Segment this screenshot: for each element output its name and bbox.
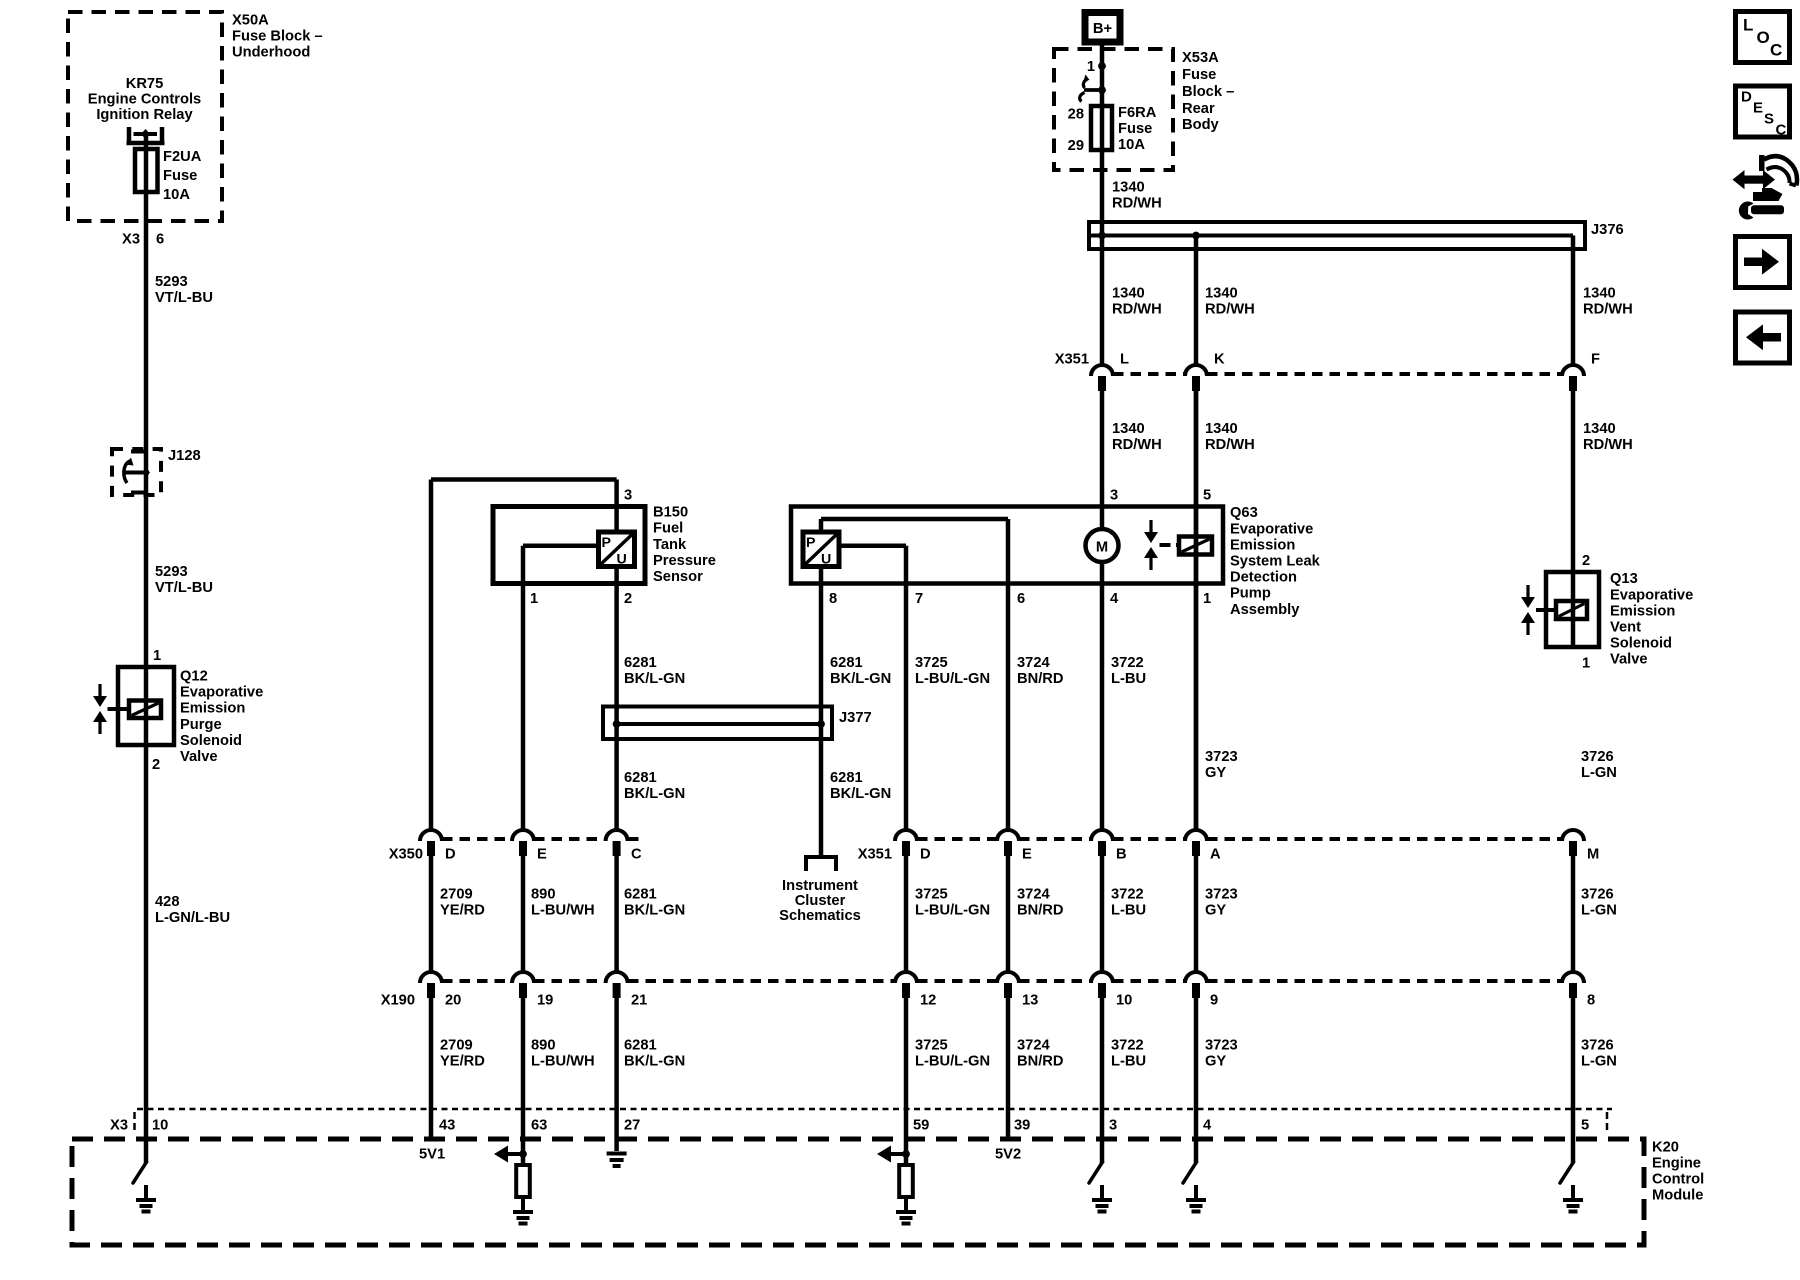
svg-text:6281: 6281: [830, 770, 863, 786]
ground pin 4: [1186, 1198, 1206, 1202]
svg-text:3: 3: [1109, 1118, 1117, 1134]
connector X350 pin D: [420, 830, 442, 841]
svg-text:O: O: [1757, 28, 1770, 47]
svg-text:43: 43: [439, 1118, 455, 1134]
connector X190 pin 19: [512, 972, 534, 983]
svg-text:6281: 6281: [830, 655, 863, 671]
5V reference arrow at pin 59: [877, 1146, 891, 1163]
nav icon DESC box: [1736, 86, 1790, 137]
wire 1340 RD/WH right drop from J376: [1571, 236, 1576, 366]
connector X351 pin B: [1091, 830, 1113, 841]
svg-text:Valve: Valve: [1610, 652, 1648, 668]
svg-text:1340: 1340: [1205, 286, 1238, 302]
svg-text:Underhood: Underhood: [232, 45, 310, 61]
relay KR75 contact: [127, 127, 132, 145]
svg-text:J376: J376: [1591, 222, 1624, 238]
svg-text:890: 890: [531, 1038, 556, 1054]
switch to ground pin 5: [1560, 1162, 1574, 1183]
svg-text:GY: GY: [1205, 765, 1226, 781]
svg-text:Module: Module: [1652, 1188, 1703, 1204]
svg-text:3725: 3725: [915, 655, 948, 671]
svg-text:2: 2: [1582, 553, 1590, 569]
resistor at pin 63: [521, 1154, 526, 1165]
svg-text:Emission: Emission: [1610, 603, 1675, 619]
svg-text:21: 21: [631, 993, 647, 1009]
svg-text:F2UA: F2UA: [163, 149, 202, 165]
svg-text:3725: 3725: [915, 887, 948, 903]
connector X190 pin 12: [895, 972, 917, 983]
svg-text:59: 59: [913, 1118, 929, 1134]
svg-text:RD/WH: RD/WH: [1205, 302, 1255, 318]
svg-text:4: 4: [1203, 1118, 1212, 1134]
svg-text:L-GN: L-GN: [1581, 903, 1617, 919]
svg-text:1: 1: [1087, 59, 1095, 75]
svg-text:2: 2: [624, 591, 632, 607]
svg-text:C: C: [1776, 122, 1787, 139]
svg-text:3: 3: [624, 488, 632, 504]
svg-text:5V1: 5V1: [419, 1147, 445, 1163]
connector X350 pin E: [512, 830, 534, 841]
wire Q63 pin 6 internal: [821, 517, 1008, 522]
svg-text:6281: 6281: [624, 1038, 657, 1054]
svg-text:3722: 3722: [1111, 1038, 1144, 1054]
svg-text:D: D: [920, 847, 931, 863]
coil Q12: [129, 701, 161, 719]
svg-text:3724: 3724: [1017, 887, 1051, 903]
svg-text:3722: 3722: [1111, 887, 1144, 903]
svg-text:BK/L-GN: BK/L-GN: [830, 671, 891, 687]
svg-text:BK/L-GN: BK/L-GN: [830, 786, 891, 802]
nav icon LOC box: [1736, 12, 1790, 63]
svg-text:L-BU: L-BU: [1111, 1054, 1146, 1070]
svg-text:BN/RD: BN/RD: [1017, 903, 1064, 919]
svg-text:U: U: [821, 552, 831, 568]
svg-text:F6RA: F6RA: [1118, 105, 1157, 121]
svg-text:5V2: 5V2: [995, 1147, 1021, 1163]
svg-text:Vent: Vent: [1610, 620, 1641, 636]
svg-text:Cluster: Cluster: [795, 893, 846, 909]
motor M symbol Q63: [1086, 529, 1119, 562]
connector X350 pin C: [606, 830, 628, 841]
splice bus J376: [1089, 222, 1585, 249]
connector X351 pin E: [997, 830, 1019, 841]
solenoid valve Q12 box: [118, 667, 174, 745]
svg-text:3726: 3726: [1581, 1038, 1614, 1054]
svg-text:19: 19: [537, 993, 553, 1009]
junction node K20 pin 59: [902, 1150, 910, 1158]
svg-text:10: 10: [1116, 993, 1132, 1009]
connector X351 pin M: [1562, 830, 1584, 841]
junction node on J376 at 1102: [1098, 232, 1106, 240]
svg-text:YE/RD: YE/RD: [440, 1054, 485, 1070]
svg-text:Pump: Pump: [1230, 586, 1271, 602]
svg-text:L-BU: L-BU: [1111, 903, 1146, 919]
svg-text:C: C: [1770, 41, 1782, 60]
svg-text:29: 29: [1068, 138, 1084, 154]
svg-text:28: 28: [1068, 107, 1084, 123]
svg-text:X3: X3: [110, 1118, 128, 1134]
wire Q63 pin 4 below motor: [1100, 562, 1105, 830]
svg-text:YE/RD: YE/RD: [440, 903, 485, 919]
wire Q63 pin 8 down to instrument cluster: [819, 567, 824, 858]
svg-text:L-GN/L-BU: L-GN/L-BU: [155, 910, 230, 926]
svg-text:BN/RD: BN/RD: [1017, 671, 1064, 687]
switch to ground pin 3: [1089, 1162, 1103, 1183]
wire B150 pin 2 down through J377: [614, 567, 619, 831]
connector row X350 dashed line: [442, 837, 512, 841]
solenoid valve Q13 box: [1546, 572, 1599, 647]
wire Q63 pin 1 through coil: [1194, 391, 1199, 830]
svg-text:J377: J377: [839, 710, 872, 726]
svg-text:BK/L-GN: BK/L-GN: [624, 903, 685, 919]
svg-text:U: U: [617, 552, 627, 568]
svg-text:L-BU/L-GN: L-BU/L-GN: [915, 1054, 990, 1070]
svg-text:3724: 3724: [1017, 1038, 1051, 1054]
svg-text:J128: J128: [168, 448, 201, 464]
svg-text:Q13: Q13: [1610, 571, 1638, 587]
pump assembly Q63 box: [791, 507, 1223, 584]
svg-text:6: 6: [1017, 591, 1025, 607]
wire Q63 pin 7 internal: [839, 544, 906, 549]
svg-text:Control: Control: [1652, 1172, 1704, 1188]
svg-text:Instrument: Instrument: [782, 878, 858, 894]
connector X190 pin 9: [1185, 972, 1207, 983]
nav icon back arrow box: [1736, 312, 1790, 363]
wire 1340 RD/WH X351-K to Q63 pin 5: [1194, 391, 1199, 830]
svg-text:8: 8: [1587, 993, 1595, 1009]
wire from KR75 through fuse F2UA down to K20 X3-10: [144, 134, 149, 1163]
svg-text:L: L: [1743, 16, 1753, 35]
svg-text:Fuel: Fuel: [653, 521, 683, 537]
ground pin 5: [1563, 1198, 1583, 1202]
svg-text:Fuse: Fuse: [1182, 67, 1216, 83]
svg-text:428: 428: [155, 894, 180, 910]
svg-text:Emission: Emission: [180, 701, 245, 717]
svg-text:Q63: Q63: [1230, 505, 1258, 521]
svg-text:RD/WH: RD/WH: [1583, 437, 1633, 453]
wire 2709 from B150 pin 3 loop: [431, 477, 617, 482]
svg-text:Solenoid: Solenoid: [1610, 636, 1672, 652]
sensor B150 box: [493, 507, 645, 584]
svg-text:Fuse Block –: Fuse Block –: [232, 29, 323, 45]
wire 1340 RD/WH X351-L to Q63 pin 3: [1100, 391, 1105, 529]
svg-text:6281: 6281: [624, 770, 657, 786]
svg-text:B150: B150: [653, 505, 688, 521]
svg-text:1340: 1340: [1112, 286, 1145, 302]
svg-text:10A: 10A: [1118, 137, 1145, 153]
svg-text:Purge: Purge: [180, 717, 222, 733]
svg-text:Q12: Q12: [180, 669, 208, 685]
connector X351 pin F: [1562, 365, 1584, 376]
svg-text:7: 7: [915, 591, 923, 607]
svg-text:1: 1: [153, 648, 161, 664]
svg-text:Tank: Tank: [653, 537, 687, 553]
svg-text:VT/L-BU: VT/L-BU: [155, 290, 213, 306]
svg-text:Evaporative: Evaporative: [180, 685, 263, 701]
P/U sensor symbol Q63: [819, 519, 824, 532]
nav icon diagram tool: [1759, 155, 1765, 171]
svg-text:L-BU: L-BU: [1111, 671, 1146, 687]
svg-text:E: E: [537, 847, 547, 863]
svg-text:4: 4: [1110, 591, 1119, 607]
fuse F2UA: [135, 149, 158, 192]
svg-text:GY: GY: [1205, 1054, 1226, 1070]
svg-text:3726: 3726: [1581, 749, 1614, 765]
svg-text:VT/L-BU: VT/L-BU: [155, 580, 213, 596]
wire 1340 RD/WH from J376 left drop: [1194, 236, 1199, 366]
svg-text:1340: 1340: [1205, 421, 1238, 437]
svg-text:Valve: Valve: [180, 749, 218, 765]
connector X3 separator dashes left: [133, 1112, 136, 1133]
battery feed B+ terminal: [1085, 13, 1120, 43]
svg-text:12: 12: [920, 993, 936, 1009]
svg-text:3726: 3726: [1581, 887, 1614, 903]
svg-text:Ignition Relay: Ignition Relay: [96, 107, 193, 123]
svg-text:X351: X351: [1055, 352, 1089, 368]
connector row X351 mid dashed line: [917, 837, 997, 841]
svg-text:39: 39: [1014, 1118, 1030, 1134]
svg-text:3725: 3725: [915, 1038, 948, 1054]
svg-text:2709: 2709: [440, 1038, 473, 1054]
svg-text:M: M: [1587, 847, 1599, 863]
svg-text:RD/WH: RD/WH: [1205, 437, 1255, 453]
valve symbol Q13: [1526, 585, 1529, 598]
svg-text:2: 2: [152, 757, 160, 773]
ground pin 3: [1092, 1198, 1112, 1202]
svg-text:C: C: [631, 847, 642, 863]
svg-text:X351: X351: [858, 847, 892, 863]
svg-text:Emission: Emission: [1230, 537, 1295, 553]
svg-text:K20: K20: [1652, 1140, 1679, 1156]
svg-text:3723: 3723: [1205, 887, 1238, 903]
svg-text:B: B: [1116, 847, 1127, 863]
svg-text:890: 890: [531, 887, 556, 903]
svg-text:3: 3: [1110, 488, 1118, 504]
connector X351 pin A: [1185, 830, 1207, 841]
wire B150 pin 1 internal: [523, 544, 600, 549]
svg-text:3724: 3724: [1017, 655, 1051, 671]
connector X190 pin 8: [1562, 972, 1584, 983]
connector row X3 dotted line: [137, 1108, 1612, 1111]
ground pin 59: [896, 1210, 916, 1214]
fuse block X53A dashed box: [1054, 49, 1173, 170]
connector X190 pin 13: [997, 972, 1019, 983]
ground X3-10: [136, 1198, 156, 1202]
ground pin 63: [513, 1210, 533, 1214]
svg-text:8: 8: [829, 591, 837, 607]
5V reference arrow at pin 63: [494, 1146, 508, 1163]
wire B+ to J376 bus: [1100, 46, 1105, 366]
svg-text:S: S: [1764, 111, 1774, 128]
connector X190 pin 21: [606, 972, 628, 983]
junction node on J377 right: [817, 720, 825, 728]
svg-text:Solenoid: Solenoid: [180, 733, 242, 749]
svg-text:5: 5: [1203, 488, 1211, 504]
svg-text:B+: B+: [1093, 21, 1112, 37]
splice bus J377: [603, 707, 832, 740]
svg-text:Sensor: Sensor: [653, 569, 703, 585]
svg-text:9: 9: [1210, 993, 1218, 1009]
svg-text:RD/WH: RD/WH: [1112, 302, 1162, 318]
fuse block X50A dashed box: [68, 12, 222, 221]
svg-text:6281: 6281: [624, 887, 657, 903]
svg-text:Detection: Detection: [1230, 570, 1297, 586]
inline connector J128: [112, 449, 161, 495]
svg-text:System Leak: System Leak: [1230, 554, 1321, 570]
connector X190 pin 10: [1091, 972, 1113, 983]
wire B150 pin 3 vertical: [614, 480, 619, 533]
svg-text:5: 5: [1581, 1118, 1589, 1134]
wire segments below X190: [429, 998, 434, 1139]
svg-text:13: 13: [1022, 993, 1038, 1009]
coil Q13: [1556, 601, 1587, 619]
connector row X351 top dashed line: [1113, 372, 1185, 376]
svg-text:Block –: Block –: [1182, 84, 1234, 100]
svg-text:27: 27: [624, 1118, 640, 1134]
svg-text:RD/WH: RD/WH: [1583, 302, 1633, 318]
svg-text:BK/L-GN: BK/L-GN: [624, 786, 685, 802]
svg-text:L-BU/L-GN: L-BU/L-GN: [915, 671, 990, 687]
svg-text:3723: 3723: [1205, 749, 1238, 765]
contact hook symbol X53A: [1083, 79, 1087, 88]
svg-text:2709: 2709: [440, 887, 473, 903]
svg-text:Body: Body: [1182, 117, 1220, 133]
connector X351 pin L: [1091, 365, 1113, 376]
svg-text:BN/RD: BN/RD: [1017, 1054, 1064, 1070]
valve symbol Q63: [1149, 520, 1152, 533]
svg-text:BK/L-GN: BK/L-GN: [624, 671, 685, 687]
svg-text:RD/WH: RD/WH: [1112, 196, 1162, 212]
switch to ground pin 4: [1183, 1162, 1197, 1183]
connector X3 separator dashes right: [1606, 1112, 1609, 1133]
P/U sensor symbol B150: [599, 532, 635, 567]
svg-text:L-GN: L-GN: [1581, 1054, 1617, 1070]
instrument cluster bracket symbol: [804, 855, 838, 859]
svg-text:GY: GY: [1205, 903, 1226, 919]
svg-text:1340: 1340: [1583, 421, 1616, 437]
svg-text:P: P: [806, 535, 815, 551]
wire segments between mid row and X190: [429, 856, 434, 972]
svg-text:D: D: [445, 847, 456, 863]
svg-text:Pressure: Pressure: [653, 553, 716, 569]
svg-text:P: P: [602, 535, 611, 551]
svg-text:Fuse: Fuse: [163, 168, 197, 184]
svg-text:X53A: X53A: [1182, 50, 1219, 66]
svg-text:RD/WH: RD/WH: [1112, 437, 1162, 453]
svg-text:20: 20: [445, 993, 461, 1009]
svg-text:1340: 1340: [1583, 286, 1616, 302]
svg-text:L-BU/WH: L-BU/WH: [531, 1054, 595, 1070]
svg-text:KR75: KR75: [126, 76, 164, 92]
svg-text:X50A: X50A: [232, 13, 269, 29]
svg-text:10A: 10A: [163, 187, 190, 203]
junction node K20 pin 63: [519, 1150, 527, 1158]
connector X351 pin D: [895, 830, 917, 841]
svg-text:M: M: [1096, 539, 1108, 555]
svg-text:L-BU/L-GN: L-BU/L-GN: [915, 903, 990, 919]
svg-text:X350: X350: [389, 847, 423, 863]
coil Q63: [1179, 537, 1212, 555]
svg-text:F: F: [1591, 352, 1600, 368]
svg-text:10: 10: [152, 1118, 168, 1134]
valve symbol Q12: [98, 684, 101, 697]
svg-text:1: 1: [1203, 591, 1211, 607]
ground pin 27: [607, 1152, 627, 1156]
resistor at pin 59: [904, 1154, 909, 1165]
svg-text:3723: 3723: [1205, 1038, 1238, 1054]
svg-text:1: 1: [1582, 656, 1590, 672]
svg-text:BK/L-GN: BK/L-GN: [624, 1054, 685, 1070]
connector X190 pin 20: [420, 972, 442, 983]
svg-text:6: 6: [156, 232, 164, 248]
switch to ground X3-10 inside K20: [133, 1162, 147, 1183]
svg-text:E: E: [1022, 847, 1032, 863]
svg-text:A: A: [1210, 847, 1221, 863]
svg-text:1: 1: [530, 591, 538, 607]
svg-text:Evaporative: Evaporative: [1610, 587, 1693, 603]
svg-text:3722: 3722: [1111, 655, 1144, 671]
svg-text:X190: X190: [381, 993, 415, 1009]
svg-text:K: K: [1214, 352, 1225, 368]
svg-text:6281: 6281: [624, 655, 657, 671]
nav icon next arrow box: [1736, 237, 1790, 288]
junction node on J376 at 1196: [1192, 232, 1200, 240]
svg-text:Engine Controls: Engine Controls: [88, 92, 201, 108]
svg-text:5293: 5293: [155, 564, 188, 580]
svg-text:X3: X3: [122, 232, 140, 248]
svg-text:5293: 5293: [155, 274, 188, 290]
svg-text:Schematics: Schematics: [779, 908, 861, 924]
svg-text:Assembly: Assembly: [1230, 602, 1300, 618]
connector row X190 dashed line: [442, 979, 512, 983]
svg-text:1340: 1340: [1112, 180, 1145, 196]
fuse F6RA: [1091, 106, 1112, 150]
svg-text:E: E: [1753, 100, 1763, 117]
svg-text:L-GN: L-GN: [1581, 765, 1617, 781]
svg-text:63: 63: [531, 1118, 547, 1134]
junction node on J377 left: [613, 720, 621, 728]
svg-text:D: D: [1741, 89, 1752, 106]
svg-text:1340: 1340: [1112, 421, 1145, 437]
wire 1340 RD/WH X351-F to Q13 pin 2: [1571, 391, 1576, 647]
svg-text:Engine: Engine: [1652, 1156, 1701, 1172]
svg-text:Rear: Rear: [1182, 101, 1215, 117]
svg-text:Fuse: Fuse: [1118, 121, 1152, 137]
svg-text:L-BU/WH: L-BU/WH: [531, 903, 595, 919]
connector X351 pin K: [1185, 365, 1207, 376]
module K20 dashed box: [72, 1139, 1644, 1245]
svg-text:Evaporative: Evaporative: [1230, 521, 1313, 537]
svg-text:L: L: [1120, 352, 1129, 368]
